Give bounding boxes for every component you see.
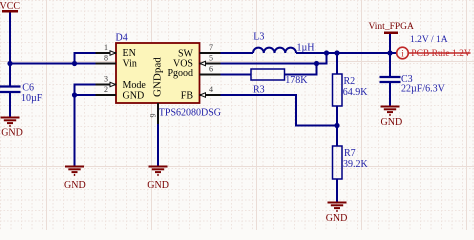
resistor R7 39.2K bbox=[333, 146, 369, 179]
svg-text:GND: GND bbox=[64, 180, 86, 191]
svg-text:GNDpad: GNDpad bbox=[152, 57, 164, 97]
svg-text:6: 6 bbox=[209, 65, 213, 74]
svg-text:GND: GND bbox=[326, 213, 348, 224]
svg-text:1.2V / 1A: 1.2V / 1A bbox=[410, 35, 448, 45]
wire GND pin2 bbox=[75, 94, 96, 96]
resistor R3 178K bbox=[251, 69, 308, 96]
wire C6 to ground bbox=[9, 93, 11, 117]
node junction FB divider bbox=[334, 123, 339, 128]
PCB rule directive line bbox=[409, 52, 471, 54]
node junction VOS/output bbox=[324, 50, 329, 55]
wire R2 bottom lead bbox=[336, 106, 338, 126]
power port VCC bbox=[0, 1, 20, 12]
wire VCC vertical to C6 bbox=[9, 13, 11, 87]
svg-text:L3: L3 bbox=[253, 32, 264, 43]
capacitor C6 bbox=[0, 83, 43, 105]
svg-text:39.2K: 39.2K bbox=[343, 159, 369, 170]
capacitor C3 bbox=[380, 74, 446, 95]
pin 4 FB bbox=[181, 85, 221, 102]
svg-text:R7: R7 bbox=[344, 148, 356, 159]
wire R7 bottom lead bbox=[336, 179, 338, 202]
pin 2 GND bbox=[96, 85, 145, 102]
pin 8 Vin bbox=[96, 54, 137, 70]
wire FB to divider bbox=[221, 95, 338, 126]
svg-text:1: 1 bbox=[104, 43, 108, 52]
svg-text:GND: GND bbox=[1, 128, 23, 139]
svg-text:R2: R2 bbox=[344, 76, 356, 87]
svg-text:4: 4 bbox=[209, 85, 213, 94]
wire EN bend down to Vin net bbox=[75, 53, 96, 63]
svg-text:178K: 178K bbox=[285, 75, 308, 86]
wire Mode down to GND net bbox=[75, 85, 96, 167]
ground under C3 bbox=[381, 107, 400, 115]
svg-text:3: 3 bbox=[104, 75, 108, 84]
wire R7 top lead bbox=[336, 126, 338, 147]
node junction output/R2 bbox=[334, 50, 339, 55]
svg-text:PCB Rule 1.2V: PCB Rule 1.2V bbox=[411, 49, 471, 59]
wire SW to inductor bbox=[221, 52, 254, 54]
svg-text:64.9K: 64.9K bbox=[343, 87, 369, 98]
pin 5 VOS bbox=[173, 54, 221, 70]
inductor L3 bbox=[253, 32, 314, 54]
wire R2 top lead bbox=[336, 53, 338, 74]
wire pin9 to ground bbox=[157, 124, 159, 166]
svg-text:C6: C6 bbox=[22, 83, 34, 94]
svg-text:EN: EN bbox=[123, 48, 136, 59]
pin 1 EN bbox=[96, 43, 136, 59]
ground under C6 bbox=[1, 118, 20, 126]
svg-text:Vint_FPGA: Vint_FPGA bbox=[369, 22, 414, 32]
wire Pgood to R3 bbox=[221, 74, 252, 76]
IC D4 TPS62080DSG body bbox=[116, 33, 222, 119]
wire Vint_FPGA port down through output node to C3 bbox=[389, 34, 391, 77]
wire VOS to output node bbox=[221, 53, 327, 64]
wire R3 right lead up to VOS bbox=[285, 65, 317, 75]
resistor R2 64.9K bbox=[333, 74, 369, 106]
svg-text:FB: FB bbox=[181, 91, 194, 102]
svg-text:Vin: Vin bbox=[123, 59, 137, 70]
node junction R3/VOS bbox=[314, 61, 319, 66]
svg-text:Pgood: Pgood bbox=[167, 68, 193, 79]
ground under pin9 bbox=[149, 167, 168, 175]
svg-text:5: 5 bbox=[209, 54, 213, 63]
ground under R7 bbox=[328, 203, 347, 211]
pin 7 SW bbox=[178, 43, 221, 60]
svg-text:22µF/6.3V: 22µF/6.3V bbox=[401, 84, 446, 95]
svg-text:GND: GND bbox=[123, 91, 145, 102]
svg-text:GND: GND bbox=[147, 180, 169, 191]
ground under Mode/GND net bbox=[65, 167, 84, 175]
wire Vin horizontal from VCC line bbox=[10, 63, 96, 65]
svg-text:1µH: 1µH bbox=[297, 43, 315, 54]
node junction EN/Vin bbox=[72, 61, 77, 66]
svg-text:2: 2 bbox=[104, 85, 108, 94]
node junction output/port/C3 bbox=[387, 50, 392, 55]
pin 3 Mode bbox=[96, 75, 147, 92]
node junction pin2/GND net bbox=[72, 92, 77, 97]
svg-text:10µF: 10µF bbox=[21, 93, 43, 104]
pin 9 GNDpad bbox=[149, 57, 164, 124]
svg-text:Mode: Mode bbox=[123, 80, 147, 91]
PCB directive icon bbox=[397, 47, 409, 59]
wire inductor to output port bbox=[296, 52, 396, 54]
node junction VCC/Vin bbox=[7, 61, 12, 66]
svg-text:8: 8 bbox=[104, 54, 108, 63]
svg-text:7: 7 bbox=[209, 43, 213, 52]
svg-text:GND: GND bbox=[381, 117, 403, 128]
svg-text:R3: R3 bbox=[253, 85, 265, 96]
svg-text:D4: D4 bbox=[116, 33, 128, 44]
pin 6 Pgood bbox=[167, 65, 220, 80]
wire C3 to ground bbox=[389, 83, 391, 106]
svg-text:9: 9 bbox=[149, 114, 158, 118]
power port Vint_FPGA bbox=[369, 22, 414, 33]
svg-text:TPS62080DSG: TPS62080DSG bbox=[159, 108, 221, 119]
